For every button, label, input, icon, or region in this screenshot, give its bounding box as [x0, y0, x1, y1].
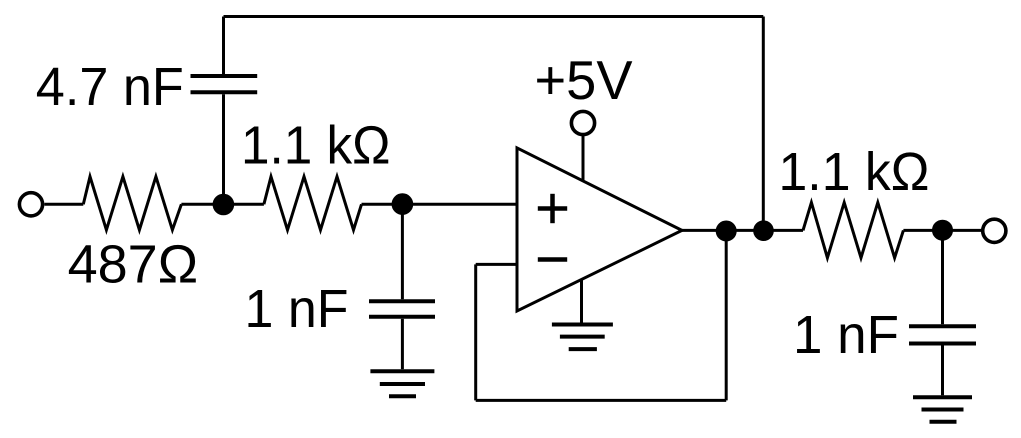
- wire: op-amp ground stem: [580, 280, 583, 323]
- label R3 value 1.1 kOhm: [779, 142, 930, 202]
- node D junction dot (output node): [934, 221, 952, 239]
- wire: node B2 down to C2 top plate: [401, 204, 404, 299]
- wire: C1 top lead (from top wire down to C1 top plate): [222, 17, 225, 75]
- resistor R3 1.1 kOhm (zigzag): [803, 203, 903, 258]
- wire: R1 to node A: [181, 203, 223, 206]
- wire: C3 bottom plate to ground: [941, 346, 944, 396]
- label +5V: [535, 49, 633, 111]
- wire: op-amp output to R3: [682, 229, 803, 232]
- node B junction dot (top feedback tap): [755, 222, 773, 240]
- wire: +5V terminal down to op-amp top edge: [582, 135, 585, 182]
- label R1 value 487 ohm: [68, 235, 198, 295]
- ground (below C2): [370, 371, 434, 396]
- label C3 value 1 nF: [793, 305, 899, 365]
- node B2 junction dot (op-amp + input node): [393, 195, 412, 214]
- ground (below C3): [913, 397, 972, 422]
- wire: feedback left vertical: [474, 264, 477, 400]
- wire: R2 to node B2: [362, 203, 403, 206]
- wire: node D to output terminal: [943, 229, 983, 232]
- label C1 value 4.7 nF: [36, 57, 184, 117]
- svg-text:+5V: +5V: [535, 49, 633, 111]
- svg-text:1.1 kΩ: 1.1 kΩ: [779, 142, 930, 202]
- wire: node D down to C3 top plate: [941, 230, 944, 324]
- svg-text:4.7 nF: 4.7 nF: [36, 57, 184, 117]
- wire: top feedback wire from C1 top to right vertical: [224, 15, 764, 18]
- svg-text:487Ω: 487Ω: [68, 235, 198, 295]
- wire: R3 to node D: [903, 229, 942, 232]
- terminal: output open circle: [983, 219, 1006, 242]
- wire: input terminal to R1: [44, 203, 83, 206]
- wire: op-amp inverting input lead: [476, 263, 517, 266]
- terminal: +5V supply open circle: [571, 111, 594, 134]
- op-amp U1 minus input symbol: [538, 257, 567, 262]
- node A junction dot (input summing node): [214, 195, 233, 214]
- label C2 value 1 nF: [245, 279, 349, 339]
- svg-text:1 nF: 1 nF: [793, 305, 899, 365]
- capacitor C3 1 nF (plates): [909, 326, 976, 343]
- op-amp U1 plus input symbol: [538, 194, 567, 223]
- capacitor C1 4.7 nF (plates): [191, 76, 258, 92]
- wire: C2 bottom plate to ground: [401, 319, 404, 369]
- resistor R2 1.1 kOhm (zigzag): [264, 177, 362, 230]
- capacitor C2 1 nF (plates): [369, 301, 435, 317]
- terminal: input open circle: [19, 193, 42, 216]
- wire: C1 bottom lead down to node A: [222, 94, 225, 204]
- svg-text:1 nF: 1 nF: [245, 279, 349, 339]
- svg-text:1.1 kΩ: 1.1 kΩ: [241, 116, 391, 176]
- wire: node B2 to op-amp non-inverting input: [402, 203, 517, 206]
- node C junction dot (output feedback tap): [717, 222, 735, 240]
- wire: node A to R2: [223, 203, 264, 206]
- op-amp U1 (triangle): [517, 148, 682, 311]
- ground (op-amp negative supply): [552, 325, 613, 350]
- resistor R1 487 ohm (zigzag): [83, 177, 181, 230]
- wire: right vertical from top wire down to output node B: [762, 17, 765, 231]
- wire: feedback bottom horizontal: [476, 399, 727, 402]
- wire: feedback right vertical up to output node: [725, 231, 728, 400]
- label R2 value 1.1 kOhm: [241, 116, 391, 176]
